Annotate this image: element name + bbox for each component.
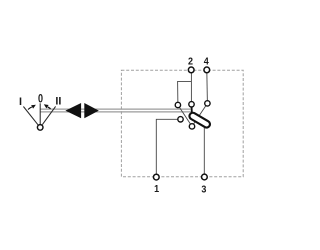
moving bridge contact	[193, 116, 207, 124]
wire terminal 2 to contact B	[190, 70, 192, 104]
contact B	[189, 102, 194, 107]
wire branch 2 to contact A	[178, 81, 192, 105]
terminal 3	[202, 174, 208, 180]
svg-text:2: 2	[188, 56, 193, 68]
mechanical linkage double line	[40, 109, 190, 112]
contact A	[175, 102, 180, 107]
contact E	[189, 124, 194, 129]
wire terminal 1 to contact D	[156, 119, 180, 177]
svg-text:4: 4	[204, 56, 210, 68]
svg-text:1: 1	[154, 184, 160, 196]
wire terminal 3 to bridge	[203, 126, 205, 178]
wire contact A to contact E	[178, 105, 192, 126]
svg-text:II: II	[55, 96, 61, 108]
svg-text:3: 3	[201, 184, 206, 196]
terminal 1	[153, 174, 159, 180]
arrow II to 0	[44, 104, 51, 108]
wire contact C to contact E	[192, 103, 207, 126]
lever position line 0	[39, 103, 41, 124]
lever pivot	[37, 125, 43, 131]
svg-text:0: 0	[38, 93, 43, 105]
terminal 4	[204, 67, 210, 73]
wire terminal 4 to contact C	[206, 70, 209, 103]
svg-text:I: I	[19, 96, 22, 108]
terminal 2	[188, 67, 194, 73]
contact C	[205, 101, 210, 106]
lever position line II	[42, 106, 55, 124]
linkage arrow left	[65, 103, 81, 118]
dashed enclosure box	[121, 70, 243, 177]
lever position line I	[23, 107, 38, 126]
contact D	[178, 117, 183, 122]
link contact B to bridge	[191, 107, 193, 114]
linkage arrow right	[84, 103, 99, 118]
arrow I to 0	[28, 105, 36, 110]
